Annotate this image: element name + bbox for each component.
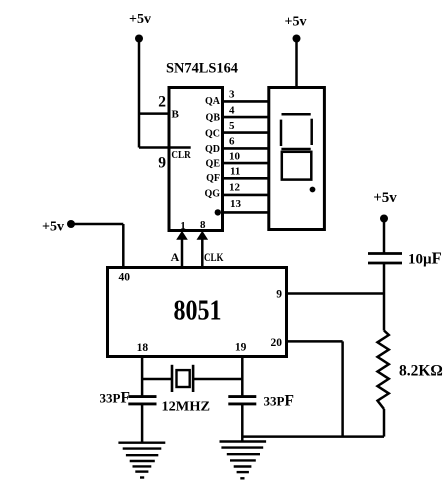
crystal Y1 left plate xyxy=(171,365,174,392)
svg-text:20: 20 xyxy=(271,337,283,349)
arrowhead CLK into pin 8 xyxy=(197,231,209,240)
capacitor C2 bottom plate xyxy=(228,402,256,405)
wire A from 8051 to U1 pin 1 xyxy=(181,239,184,268)
svg-text:13: 13 xyxy=(230,198,242,210)
wire bottom rail to ground xyxy=(242,435,384,438)
wire C1 to ground xyxy=(141,404,144,442)
svg-text:CLR: CLR xyxy=(171,150,191,161)
svg-text:+5v: +5v xyxy=(373,190,397,206)
wire QC pin 5 to display xyxy=(223,131,269,134)
svg-text:A: A xyxy=(171,250,180,264)
wire C3 to resistor R1 xyxy=(383,264,386,331)
svg-text:8.2KΩ: 8.2KΩ xyxy=(399,363,443,380)
svg-text:QF: QF xyxy=(206,173,220,184)
svg-text:QB: QB xyxy=(206,113,221,124)
wire pin 20 vertical down xyxy=(341,341,344,436)
wire VCC2 to display top xyxy=(295,39,298,88)
svg-text:40: 40 xyxy=(119,272,131,284)
power +5v VCC4 terminal dot xyxy=(380,215,388,223)
wire 8051 pin 19 down xyxy=(241,357,244,397)
capacitor C3 bottom plate xyxy=(368,262,402,265)
wire crystal right horizontal xyxy=(193,378,242,381)
svg-text:10µF: 10µF xyxy=(408,249,442,268)
svg-text:QD: QD xyxy=(205,144,220,155)
svg-text:9: 9 xyxy=(276,289,282,301)
wire QA pin 3 to display xyxy=(223,100,269,103)
crystal Y1 body box xyxy=(177,370,190,387)
power +5v VCC3 terminal dot xyxy=(67,220,75,228)
ground symbol left xyxy=(118,443,165,478)
svg-text:11: 11 xyxy=(230,166,240,178)
arrowhead A into pin 1 xyxy=(176,231,188,240)
svg-text:18: 18 xyxy=(137,342,149,354)
svg-text:QA: QA xyxy=(205,96,221,107)
shift register U1 SN74LS164 body xyxy=(169,88,223,231)
power +5v VCC2 terminal dot xyxy=(293,35,301,43)
svg-text:QG: QG xyxy=(204,189,220,200)
wire C2 to ground xyxy=(241,404,244,442)
wire 8051 pin 20 horizontal xyxy=(287,340,343,343)
svg-text:8: 8 xyxy=(200,219,206,231)
segment top xyxy=(282,113,311,116)
wire CLK from 8051 to U1 pin 8 xyxy=(201,239,204,268)
wire 8051 pin 18 down xyxy=(141,357,144,397)
wire VCC4 down to capacitor C3 xyxy=(383,219,386,253)
decimal point dot xyxy=(310,187,316,193)
wire 8051 pin 9 to RC node xyxy=(287,292,385,295)
segment lower box xyxy=(282,152,312,180)
svg-text:QC: QC xyxy=(205,129,220,140)
svg-text:33PF: 33PF xyxy=(264,393,294,410)
svg-text:6: 6 xyxy=(229,136,235,148)
wire VCC1 vertical down to CLR level xyxy=(138,39,141,148)
segment upper-right xyxy=(310,119,313,145)
segment upper-left xyxy=(280,120,283,146)
svg-text:12: 12 xyxy=(229,182,241,194)
svg-text:SN74LS164: SN74LS164 xyxy=(166,61,238,77)
wire QG pin 12 to display xyxy=(223,194,269,197)
segment middle xyxy=(281,148,310,151)
capacitor C1 top plate xyxy=(128,395,156,398)
svg-text:19: 19 xyxy=(235,342,247,354)
wire VCC3 horizontal to pin 40 xyxy=(71,223,123,226)
svg-text:QE: QE xyxy=(206,159,221,170)
svg-text:10: 10 xyxy=(229,151,241,163)
capacitor C2 top plate xyxy=(228,395,256,398)
wire QE pin 10 to display xyxy=(223,162,269,165)
capacitor C3 top plate xyxy=(368,252,402,255)
svg-text:2: 2 xyxy=(158,94,166,111)
seven segment display DS1 body xyxy=(269,88,325,230)
wire R1 bottom down xyxy=(383,409,386,437)
svg-text:33PF: 33PF xyxy=(100,390,130,407)
svg-text:+5v: +5v xyxy=(42,220,64,235)
svg-text:+5v: +5v xyxy=(129,12,151,27)
svg-text:1: 1 xyxy=(180,220,186,232)
svg-text:8051: 8051 xyxy=(174,296,222,327)
svg-text:9: 9 xyxy=(158,155,166,172)
crystal Y1 right plate xyxy=(192,365,195,392)
ground symbol right xyxy=(220,442,267,479)
resistor R1 zigzag xyxy=(378,331,389,410)
wire crystal left horizontal xyxy=(142,378,172,381)
wire VCC3 vertical down to 8051 pin 40 xyxy=(122,224,125,268)
svg-text:B: B xyxy=(172,109,180,121)
svg-text:5: 5 xyxy=(229,120,235,132)
capacitor C1 bottom plate xyxy=(128,402,156,405)
svg-text:12MHZ: 12MHZ xyxy=(162,400,211,415)
svg-text:3: 3 xyxy=(229,89,235,101)
junction dot on pin 13 wire xyxy=(215,209,221,215)
wire QF pin 11 to display xyxy=(223,177,269,180)
wire QH pin 13 to display xyxy=(223,211,269,214)
microcontroller U2 8051 body xyxy=(108,268,287,357)
svg-text:CLK: CLK xyxy=(204,252,224,264)
svg-text:4: 4 xyxy=(229,105,235,117)
wire VCC1 to pin 2 (B) xyxy=(139,112,170,115)
wire QD pin 6 to display xyxy=(223,147,269,150)
power +5v VCC1 terminal dot xyxy=(135,35,143,43)
wire VCC1 to pin 9 (CLR) xyxy=(139,146,191,149)
svg-text:+5v: +5v xyxy=(285,15,307,30)
wire QB pin 4 to display xyxy=(223,116,269,119)
